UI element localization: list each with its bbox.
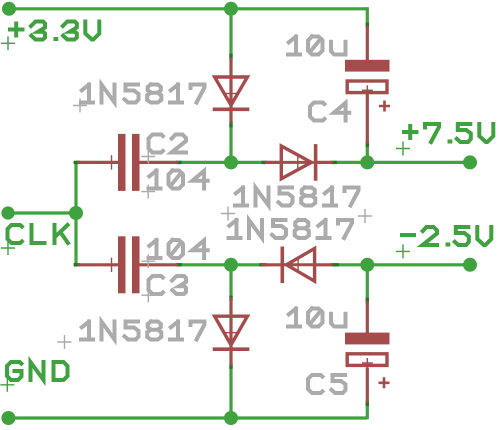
pin D2 through triangle [281,161,313,164]
capacitor C3 origin cross [104,258,118,272]
value label 1N5817 D3 origin cross [358,209,372,223]
wire rail2 junction down to C5 [366,265,369,300]
net label +3.3V [10,22,99,40]
name label C2 [149,135,187,153]
pin C2 left [78,161,119,164]
value label 10u of C4 [288,37,346,55]
net label GND [7,362,68,380]
wire top rail corner down to C4 [366,7,369,24]
net label GND origin cross [0,378,14,392]
pin D2 cathode [316,161,333,164]
wire left vertical CLK bus [74,162,77,264]
pin joint C5 top [366,298,369,303]
wire rail1 left segment [180,161,232,164]
net label +3.3V origin cross [1,36,15,50]
value label 1N5817 diode D3 [229,220,353,238]
capacitor C5 plates [345,333,390,368]
wire rail2 mid segment [231,263,261,266]
pin dot GND [1,411,15,425]
pin joint C2 right [176,161,182,164]
pin top diode through cathode [229,77,232,124]
pin joint C5 bottom [366,400,369,405]
value label 1N5817 diode D2 [235,188,359,206]
pin bottom diode anode [229,298,232,317]
pin joint diode D3 cathode [259,263,266,266]
name label C3 [149,276,187,294]
capacitor C2 origin cross [104,155,118,169]
value label 10u of C5 [288,309,346,327]
value label 1N5817 bottom diode [81,322,205,340]
wire rail2 right segment to -2.5V pin [338,263,471,266]
pin joint C3 right [176,263,182,266]
pin joint bottom diode anode [229,296,232,301]
pin dot +3.3V [2,2,16,16]
junction rail2 / C5 [360,258,374,272]
value label 104 origin cross [141,185,155,199]
pin joint diode D2 anode [262,161,268,164]
pin C5 bottom [366,368,369,403]
capacitor C5 plus sign [379,377,390,388]
wire rail1 right segment to +7.5V pin [335,161,471,164]
diode D2 1N5817 (to +7.5V) [281,144,315,181]
wire C4 bottom pin to rail1 [366,146,369,163]
net label -2.5V origin cross [396,244,410,258]
capacitor C4 plus sign [379,101,390,112]
value label 1N5817 D2 origin cross [221,207,235,221]
pin dot CLK [1,206,14,219]
wire CLK stub [8,211,76,214]
pin D3 through triangle [282,263,314,266]
capacitor C2 left plate [118,134,126,191]
value label 1N5817 top origin cross [73,99,87,113]
net label CLK origin cross [1,241,15,255]
wire rail2 junction down to bottom diode [229,265,232,297]
pin D3 cathode [261,263,282,266]
pin dot +7.5V [463,155,477,169]
pin joint C4 bottom [366,142,369,147]
junction bottom rail / bottom diode [224,411,238,425]
value label 104 of C3 [149,240,208,258]
wire rail1 left corner stub [76,161,80,164]
wire top rail +3.3V [9,7,367,10]
capacitor C3 left plate [118,236,126,293]
name label C2 origin cross [141,150,155,164]
capacitor C3 right plate [132,236,140,293]
name label C4 [310,103,349,121]
pin joint top diode anode [229,54,232,60]
value label 104 of C3 origin cross [141,254,155,268]
pin C3 right [139,263,178,266]
capacitor C4 plates [345,60,390,95]
diode 1N5817 top (vertical) [213,77,250,109]
wire top diode to rail1 junction [229,126,232,163]
value label 1N5817 top diode [81,85,205,103]
value label 1N5817 bottom origin cross [58,335,72,349]
net label -2.5V [402,227,491,245]
diode 1N5817 bottom (vertical) [213,316,250,349]
wire bottom rail GND [8,416,367,419]
pin joint bottom diode cathode [229,363,232,368]
pin joint diode D3 anode [331,263,339,266]
pin C3 left [78,263,119,266]
net label +7.5V [404,124,493,142]
wire drop to top diode [229,9,232,56]
pin D3 anode [315,263,333,266]
diode D3 1N5817 (to -2.5V) [282,247,314,284]
net label CLK [8,225,69,243]
value label 104 of C2 [149,171,208,189]
name label C5 [308,375,346,393]
pin joint C2 left [74,161,80,164]
pin C4 top [366,26,369,61]
pin joint C3 left [74,263,80,266]
pin D2 anode [265,161,281,164]
pin joint C4 top [366,23,369,28]
wire rail1 mid segment [231,161,263,164]
junction rail2 / bottom diode [224,258,238,272]
pin joint top diode cathode [229,122,232,128]
wire C5 bottom to bottom rail [366,404,369,420]
pin joint diode D2 cathode [331,161,337,164]
pin C4 bottom [366,94,369,144]
junction CLK bus [69,206,83,220]
wire bottom diode to bottom rail [229,367,232,419]
wire rail2 left segment [180,263,232,266]
pin C2 right [139,161,178,164]
junction rail1 / C4 [360,155,374,169]
capacitor C2 right plate [132,134,140,191]
pin C5 top [366,301,369,333]
pin bottom diode through cathode [229,316,232,365]
junction rail1 / top diode [224,155,238,169]
name label C3 origin cross [141,288,155,302]
pin dot -2.5V [463,258,477,272]
junction top rail / top diode [224,2,238,16]
pin top diode anode [229,58,232,78]
net label +7.5V origin cross [396,142,410,156]
